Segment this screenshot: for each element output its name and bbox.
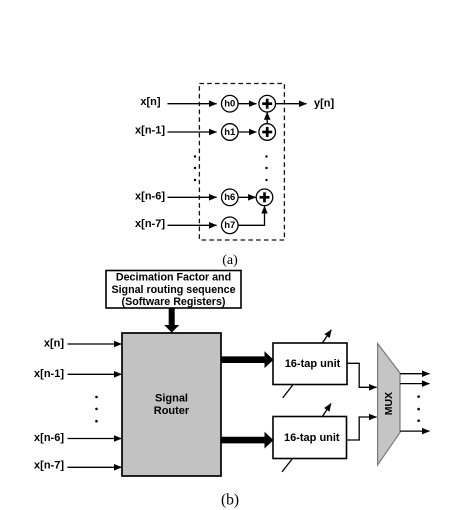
svg-text:Router: Router [154,405,190,417]
svg-text:h0: h0 [224,99,235,110]
svg-text:h7: h7 [224,220,235,231]
svg-text:(Software Registers): (Software Registers) [122,296,226,308]
svg-text:y[n]: y[n] [314,98,335,110]
svg-text:x[n-7]: x[n-7] [135,218,165,230]
svg-text:Signal: Signal [155,392,188,404]
svg-text:Decimation Factor and: Decimation Factor and [116,272,231,284]
svg-text:x[n-1]: x[n-1] [34,368,64,380]
svg-text:x[n-6]: x[n-6] [135,190,165,202]
svg-text:x[n]: x[n] [44,338,65,350]
svg-text:x[n-1]: x[n-1] [135,125,165,137]
svg-text:h1: h1 [224,127,236,138]
svg-text:x[n-7]: x[n-7] [34,460,64,472]
svg-text:(a): (a) [222,253,238,268]
svg-text:MUX: MUX [383,392,395,415]
svg-text:16-tap unit: 16-tap unit [284,432,340,444]
svg-text:Signal routing sequence: Signal routing sequence [111,284,235,296]
svg-text:x[n-6]: x[n-6] [34,432,64,444]
svg-text:h6: h6 [224,192,235,203]
svg-text:x[n]: x[n] [140,96,161,108]
svg-text:16-tap unit: 16-tap unit [285,358,341,370]
svg-text:(b): (b) [221,492,239,509]
